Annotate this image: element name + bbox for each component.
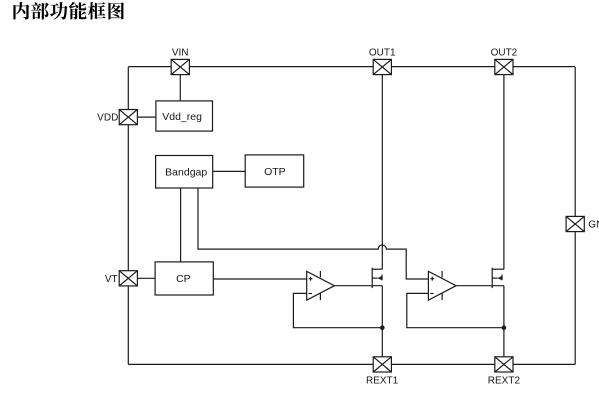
wire bottom bus (REXT1-REXT2): [128, 363, 575, 365]
wire U1 output to Q1 gate: [334, 285, 382, 287]
svg-text:OUT2: OUT2: [491, 48, 518, 59]
wire U1 feedback (- input to source node): [293, 293, 382, 327]
wire U2 feedback (- input to source node): [407, 293, 504, 327]
block OTP: [245, 155, 304, 187]
pad REXT2: [495, 357, 513, 372]
op-amp U1: [307, 271, 335, 300]
block CP: [155, 262, 213, 295]
svg-text:VT: VT: [105, 274, 118, 285]
pad VIN: [171, 59, 189, 74]
wire VDD pad to Vdd_reg: [137, 116, 156, 118]
pad GND: [566, 216, 584, 231]
wire Q2 source to REXT2: [503, 286, 505, 357]
svg-text:VIN: VIN: [172, 48, 189, 59]
pad OUT1: [373, 59, 391, 74]
transistor Q1: [372, 268, 382, 288]
block Bandgap: [156, 156, 213, 189]
op-amp U2: [428, 271, 456, 300]
wire U2 output to Q2 gate: [456, 285, 504, 287]
svg-text:REXT2: REXT2: [488, 376, 521, 387]
svg-text:OUT1: OUT1: [369, 48, 396, 59]
svg-text:REXT1: REXT1: [366, 376, 399, 387]
node source2 junction dot: [502, 325, 507, 330]
pad VT: [119, 271, 137, 286]
wire Bandgap to CP: [180, 188, 182, 262]
svg-text:VDD: VDD: [97, 113, 118, 124]
block Vdd_reg: [156, 101, 213, 131]
svg-text:Bandgap: Bandgap: [165, 167, 207, 179]
svg-text:GND: GND: [588, 220, 599, 231]
title 内部功能框图: [13, 2, 124, 20]
pad REXT1: [373, 357, 391, 372]
wire right bus (GND): [574, 67, 576, 364]
wire VT pad to CP: [137, 277, 155, 279]
wire OUT1 to Q1 drain: [381, 75, 383, 270]
wire Bandgap to op-amp U2 + input (hop over OUT1 line): [198, 188, 428, 279]
pad OUT2: [495, 59, 513, 74]
wire Bandgap to OTP: [213, 170, 246, 172]
wire CP to op-amp U1 + input: [213, 278, 306, 280]
svg-text:OTP: OTP: [264, 166, 286, 178]
transistor Q2: [492, 268, 504, 288]
node source1 junction dot: [380, 325, 385, 330]
wire VIN pad to Vdd_reg: [179, 75, 181, 101]
wire left bus (VDD-VT): [127, 67, 129, 364]
wire Q1 source to REXT1: [381, 286, 383, 357]
wire top bus (VIN-OUT1-OUT2): [128, 66, 575, 68]
svg-text:Vdd_reg: Vdd_reg: [162, 111, 202, 123]
wire OUT2 to Q2 drain: [503, 75, 505, 270]
svg-text:CP: CP: [176, 273, 191, 285]
pad VDD: [119, 110, 137, 125]
